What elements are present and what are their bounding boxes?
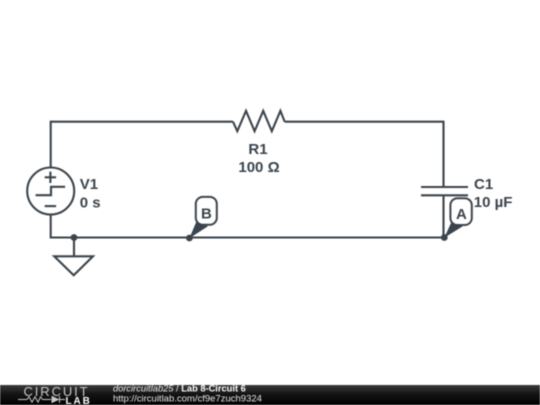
svg-text:R1: R1 bbox=[248, 141, 267, 158]
svg-text:C1: C1 bbox=[474, 176, 493, 193]
svg-text:V1: V1 bbox=[80, 176, 98, 193]
svg-text:10 µF: 10 µF bbox=[474, 194, 513, 211]
svg-text:100 Ω: 100 Ω bbox=[238, 159, 279, 176]
svg-text:A: A bbox=[456, 206, 467, 223]
svg-text:0 s: 0 s bbox=[80, 194, 101, 211]
svg-text:B: B bbox=[201, 205, 212, 222]
svg-text:dorcircuitlab25 / Lab 8-Circui: dorcircuitlab25 / Lab 8-Circuit 6 bbox=[113, 383, 246, 393]
svg-text:http://circuitlab.com/cf9e7zuc: http://circuitlab.com/cf9e7zuch9324 bbox=[113, 393, 262, 404]
svg-text:LAB: LAB bbox=[66, 396, 92, 405]
